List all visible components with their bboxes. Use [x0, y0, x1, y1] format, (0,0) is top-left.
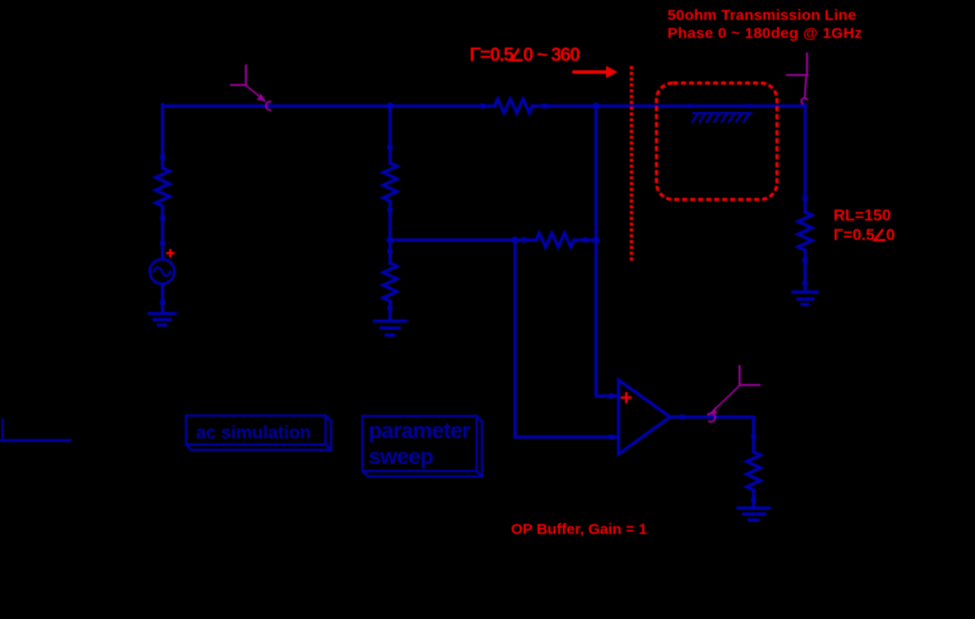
pin marks resistor R3 [481, 104, 548, 109]
label: parameter sweep [369, 418, 471, 469]
label: RL value annotation [834, 208, 896, 245]
resistor R5 (divider bottom) [383, 263, 397, 301]
source V1 plus polarity mark [167, 250, 173, 256]
wire: vertical x=515 to op-amp - input [515, 240, 611, 437]
text frame corner (bottom left, clipped) [1, 419, 70, 441]
svg-text:Phase 0 ~ 180deg @ 1GHz: Phase 0 ~ 180deg @ 1GHz [668, 25, 863, 42]
node C (mid wire to op-amp feedback) [511, 236, 518, 243]
svg-text:OP Buffer, Gain = 1: OP Buffer, Gain = 1 [511, 521, 647, 538]
ground (divider) [375, 321, 406, 335]
ground (load RL) [793, 292, 817, 305]
wire: top horizontal middle segment [533, 104, 806, 107]
wire: middle horizontal (y=240) [390, 238, 596, 241]
pin marks resistor R2 [388, 145, 393, 213]
svg-text:0: 0 [886, 227, 895, 244]
probe Pr3 (on op-amp output) [708, 366, 760, 422]
label: 50ohm transmission line annotation [668, 7, 863, 42]
node D (mid wire meets vertical to op-amp +) [592, 236, 599, 243]
annotation: red dashed sweep line [630, 66, 634, 261]
pin marks resistor R5 [388, 249, 393, 311]
AC source V1 [150, 259, 175, 284]
svg-text:sweep: sweep [369, 444, 434, 469]
pin marks resistor R4 [522, 238, 588, 243]
resistor R2 (divider top) [383, 163, 397, 201]
wire: middle divider vertical upper [388, 106, 391, 320]
resistor R7 (op-amp load) [747, 452, 761, 490]
svg-text:0 ~ 360: 0 ~ 360 [523, 45, 580, 66]
op-amp U1 non-inverting input mark [622, 393, 631, 402]
svg-text:ac simulation: ac simulation [196, 423, 311, 443]
label: op buffer annotation [511, 521, 647, 538]
pin marks resistor R7 [751, 435, 756, 503]
wire: op-amp output to load branch [683, 417, 754, 507]
pin marks resistor RL [803, 196, 808, 286]
parameter sweep box [363, 416, 483, 477]
pin marks transmission line TL1 [688, 104, 757, 109]
node E (top wire meets vertical) [592, 102, 599, 109]
resistor R4 (series, middle wire) [536, 233, 574, 247]
resistor R3 (series, top wire) [495, 99, 533, 113]
label: gamma sweep annotation [470, 45, 580, 66]
transmission line TL1 (microstrip symbol) [692, 113, 751, 122]
wire: top horizontal left segment [163, 104, 496, 107]
resistor RL [798, 212, 812, 250]
wire: vertical x=596 to op-amp + input [596, 106, 611, 396]
probe Pr1 (scope probe on top wire) [231, 66, 270, 111]
annotation: red arrow [574, 70, 607, 74]
pin marks source V1 [160, 241, 165, 305]
probe Pr2 (at transmission line output) [787, 54, 807, 104]
pin marks resistor R1 [160, 155, 165, 221]
svg-text:Γ=0.5: Γ=0.5 [834, 227, 875, 244]
svg-text:50ohm Transmission Line: 50ohm Transmission Line [668, 7, 857, 24]
svg-text:RL=150: RL=150 [834, 208, 891, 225]
ground (op-amp load) [738, 508, 769, 520]
svg-text:Γ=0.5: Γ=0.5 [470, 45, 515, 66]
wire: left vertical (source branch) [161, 105, 164, 312]
resistor R1 (series with source) [156, 168, 170, 206]
node A (junction top wire / divider) [386, 102, 393, 109]
svg-text:parameter: parameter [369, 418, 471, 443]
wire: right vertical (load RL branch) [803, 105, 806, 291]
annotation: red dashed box around transmission line [657, 83, 778, 200]
label: ac simulation [196, 423, 311, 443]
ac simulation box [186, 416, 331, 451]
ground (source branch) [149, 314, 175, 326]
node B (divider mid junction) [386, 236, 393, 243]
op-amp U1 [611, 380, 683, 454]
pin marks op-amp U1 [609, 394, 685, 440]
